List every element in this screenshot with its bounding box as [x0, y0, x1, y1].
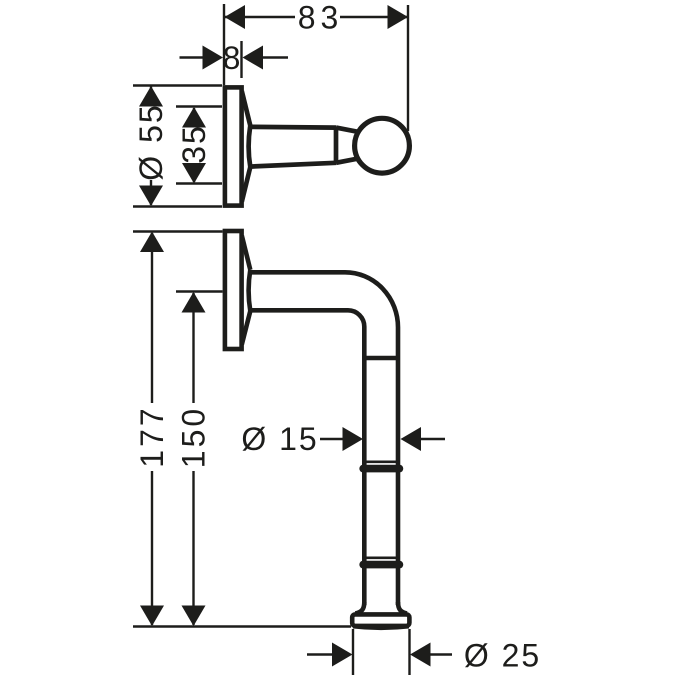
svg-text:177: 177 [134, 405, 170, 467]
svg-text:150: 150 [176, 406, 212, 468]
svg-text:35: 35 [176, 124, 212, 164]
svg-text:83: 83 [298, 0, 344, 36]
svg-text:Ø 25: Ø 25 [464, 638, 541, 674]
svg-text:Ø 55: Ø 55 [133, 103, 169, 180]
svg-text:8: 8 [223, 40, 243, 76]
svg-text:Ø 15: Ø 15 [241, 421, 318, 457]
